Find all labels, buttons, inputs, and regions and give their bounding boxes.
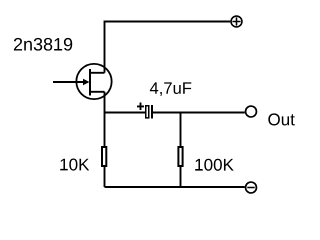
wire gate lead bbox=[53, 81, 86, 83]
wire source down to output node bbox=[104, 92, 106, 113]
transistor Q1 source lead bbox=[89, 91, 105, 93]
label Out bbox=[268, 113, 294, 125]
terminal V- (minus) bbox=[246, 182, 257, 193]
capacitor C1 right plate bbox=[151, 105, 153, 119]
label resistor R1 value 10K bbox=[60, 159, 89, 171]
wire output node down to R1 bbox=[104, 113, 106, 148]
resistor R2 100K bbox=[178, 147, 182, 166]
transistor Q1 body circle bbox=[76, 64, 111, 99]
label capacitor value 4,7uF bbox=[150, 82, 191, 96]
capacitor C1 polarity plus sign bbox=[137, 103, 144, 111]
label transistor value 2n3819 bbox=[14, 38, 72, 51]
wire output node to capacitor bbox=[105, 112, 146, 114]
terminal Out bbox=[246, 106, 257, 117]
transistor Q1 gate arrow bbox=[83, 79, 90, 86]
wire R2 to bottom rail bbox=[180, 166, 182, 187]
wire bottom rail to V- terminal bbox=[105, 186, 245, 188]
wire tap from output wire down to R2 bbox=[180, 113, 182, 148]
wire R1 to bottom rail bbox=[104, 166, 106, 187]
wire drain to V+ rail bbox=[105, 22, 231, 73]
label resistor R2 value 100K bbox=[195, 159, 233, 171]
terminal V+ (plus) bbox=[231, 16, 242, 27]
wire capacitor to Out terminal bbox=[152, 112, 245, 114]
transistor Q1 drain lead bbox=[89, 72, 105, 74]
resistor R1 10K bbox=[102, 147, 106, 166]
capacitor C1 left plate (rectangle) bbox=[146, 106, 149, 118]
transistor Q1 channel bar bbox=[89, 69, 91, 96]
